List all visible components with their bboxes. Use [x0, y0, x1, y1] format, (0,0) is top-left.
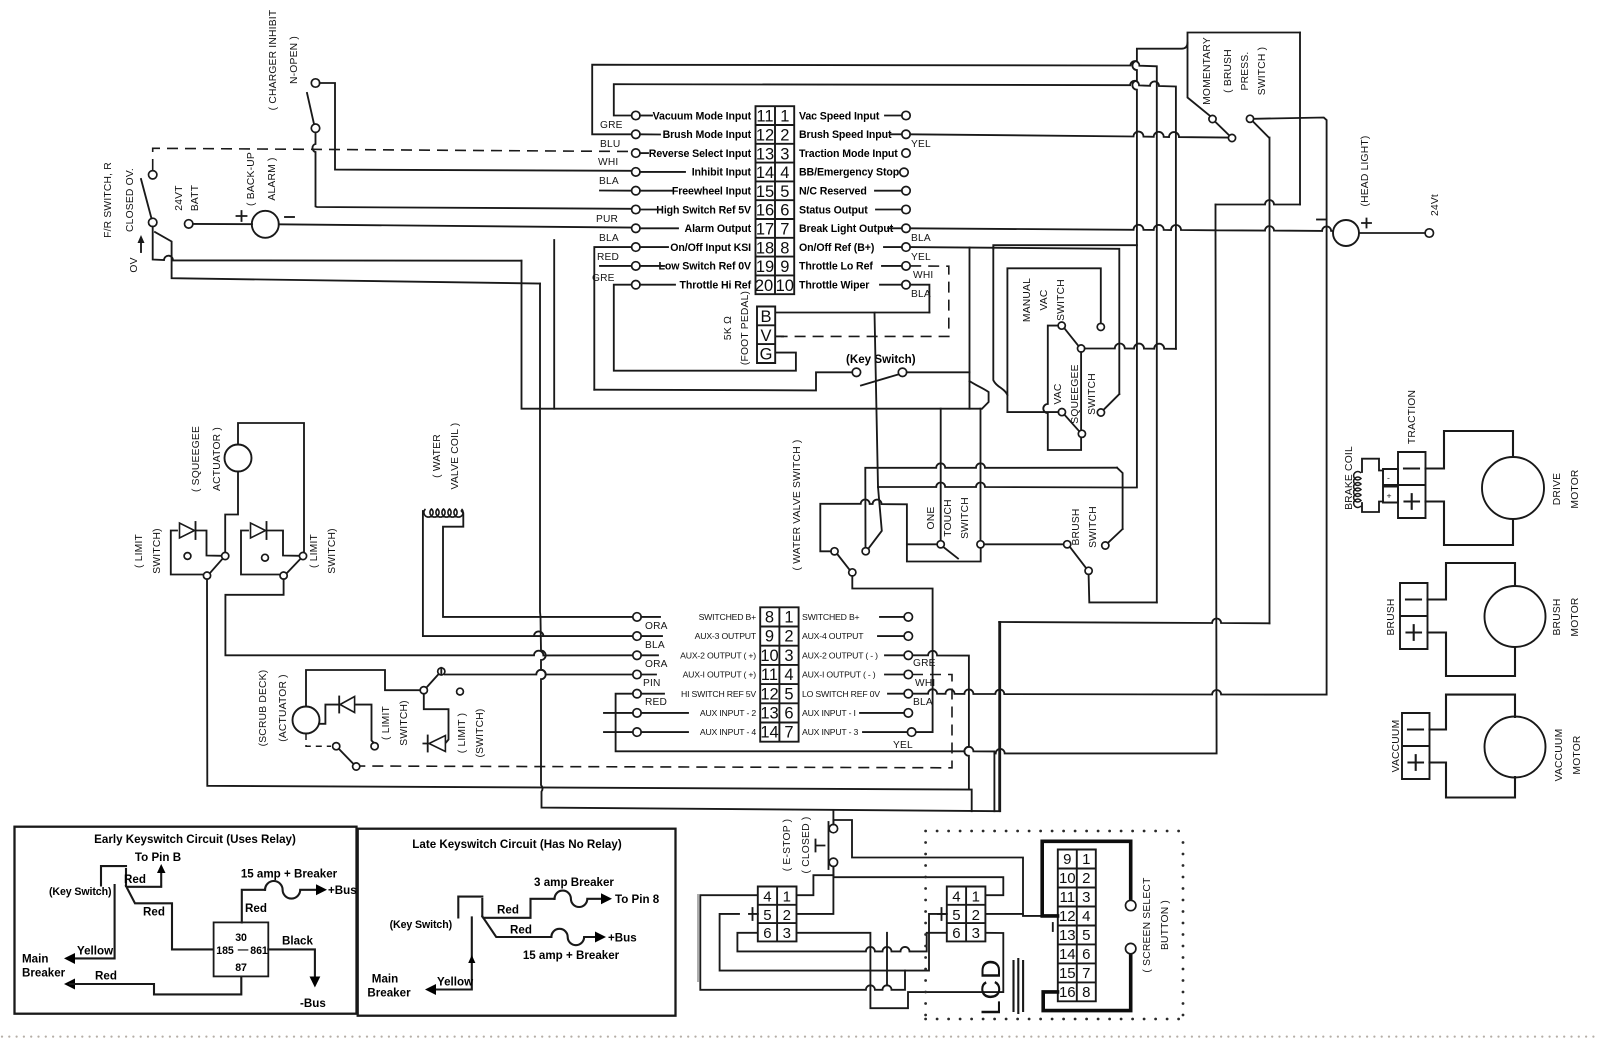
svg-text:9: 9: [780, 258, 789, 276]
wire connA pin4 loop: [700, 895, 946, 990]
key switch symbol box2: [458, 897, 482, 918]
brush motor connector: [1386, 583, 1428, 649]
svg-text:15: 15: [1059, 965, 1076, 982]
break light output bus to head light: [910, 205, 1333, 232]
svg-text:VAC: VAC: [1053, 383, 1064, 404]
24VT BATT label: [174, 184, 201, 211]
svg-text:SWITCH): SWITCH): [152, 528, 163, 573]
svg-text:SWITCH): SWITCH): [327, 528, 338, 573]
blade scrub right limit: [427, 674, 439, 687]
diode D2: [429, 736, 445, 752]
svg-text:3: 3: [784, 647, 793, 665]
net T1: brush mode input to top rail to brush switch NO: [592, 61, 1157, 602]
svg-text:AUX-4 OUTPUT: AUX-4 OUTPUT: [802, 631, 864, 641]
svg-text:BUTTON ): BUTTON ): [1160, 900, 1171, 950]
svg-text:1: 1: [1082, 851, 1090, 868]
svg-text:4: 4: [1082, 908, 1090, 925]
svg-text:18: 18: [756, 239, 774, 257]
red to breaker: [242, 890, 265, 923]
svg-text:4: 4: [763, 889, 771, 906]
svg-text:MOTOR: MOTOR: [1570, 469, 1581, 508]
svg-text:High Switch Ref 5V: High Switch Ref 5V: [656, 204, 751, 216]
wire connA pin2 to estop: [797, 867, 834, 914]
On/Off Ref B+ net: [910, 245, 1137, 394]
late keyswitch circuit box: [358, 829, 676, 1016]
svg-text:B: B: [760, 308, 771, 326]
svg-text:PRESS.: PRESS.: [1240, 52, 1251, 91]
vacuum motor: [1430, 695, 1584, 798]
svg-text:8: 8: [1082, 984, 1090, 1001]
svg-text:VACCUUM: VACCUUM: [1391, 720, 1402, 773]
svg-text:2: 2: [972, 907, 980, 924]
wire brush mover to T2 rail: [1089, 574, 1157, 602]
svg-text:9: 9: [1063, 851, 1071, 868]
svg-text:OV: OV: [129, 257, 140, 272]
svg-text:BLA: BLA: [913, 697, 933, 708]
svg-text:Break Light Output: Break Light Output: [799, 223, 894, 235]
svg-text:2: 2: [784, 628, 793, 646]
svg-text:1: 1: [780, 108, 789, 126]
svg-text:Red: Red: [245, 902, 267, 915]
svg-text:DRIVE: DRIVE: [1552, 473, 1563, 505]
svg-text:AUX INPUT - 4: AUX INPUT - 4: [700, 727, 757, 737]
svg-text:PUR: PUR: [596, 214, 618, 225]
head light: [1317, 135, 1371, 246]
J2 left labels: [680, 612, 757, 737]
svg-text:AUX INPUT - I: AUX INPUT - I: [802, 708, 856, 718]
svg-text:24Vt: 24Vt: [1430, 194, 1441, 216]
svg-text:(ACTUATOR ): (ACTUATOR ): [278, 674, 289, 742]
svg-text:ALARM ): ALARM ): [267, 157, 278, 200]
charger inhibit switch label: [268, 9, 300, 110]
svg-text:SWITCH: SWITCH: [1056, 279, 1067, 321]
svg-text:1: 1: [972, 889, 980, 906]
svg-text:14: 14: [760, 724, 778, 742]
svg-text:Red: Red: [143, 906, 165, 919]
svg-text:—: —: [238, 944, 249, 956]
svg-text:AUX-3 OUTPUT: AUX-3 OUTPUT: [695, 631, 757, 641]
vacuum motor connector: [1391, 713, 1430, 779]
J1 left terminals: [600, 111, 685, 289]
wire scrub right branch diode: [423, 694, 448, 744]
traction brake coil: [1344, 446, 1398, 512]
key switch: [846, 353, 916, 386]
B+ branch down to key switch: [970, 247, 989, 408]
wire connB pin2: [986, 913, 1023, 915]
svg-text:14: 14: [756, 164, 774, 182]
bottom page dotted rule: [1, 1036, 1595, 1038]
wire one touch left stub: [907, 543, 937, 545]
svg-text:Throttle Hi Ref: Throttle Hi Ref: [680, 280, 752, 292]
svg-text:On/Off Input KSI: On/Off Input KSI: [670, 242, 751, 254]
svg-text:-Bus: -Bus: [300, 997, 326, 1010]
limit switch 2 label: [309, 528, 338, 573]
svg-text:Main: Main: [22, 953, 48, 966]
wire one touch to brush switch: [984, 543, 1064, 545]
svg-text:BLA: BLA: [599, 176, 619, 187]
svg-text:(Key Switch): (Key Switch): [49, 886, 111, 898]
scrub junction: [420, 687, 427, 694]
F/R switch label: [103, 162, 136, 238]
net T2: vacuum mode input to top rail down right side: [614, 81, 1176, 349]
momentary brush press switch box: [1188, 33, 1301, 205]
24Vt terminal: [1425, 194, 1441, 237]
J1 right terminals: [875, 111, 910, 289]
foot pedal connector BVG: [757, 307, 775, 364]
svg-text:To Pin 8: To Pin 8: [615, 893, 660, 906]
scrub deck actuator label: [258, 670, 289, 747]
svg-text:VAC: VAC: [1039, 289, 1050, 310]
svg-text:13: 13: [1059, 927, 1076, 944]
svg-text:AUX INPUT - 3: AUX INPUT - 3: [802, 727, 859, 737]
svg-text:BLA: BLA: [645, 640, 665, 651]
svg-text:Throttle Wiper: Throttle Wiper: [799, 280, 869, 292]
svg-text:Main: Main: [372, 973, 398, 986]
svg-text:( E-STOP ): ( E-STOP ): [782, 819, 793, 872]
screen select label: [1142, 877, 1171, 973]
svg-text:AUX-2 OUTPUT ( +): AUX-2 OUTPUT ( +): [680, 650, 756, 660]
svg-text:(Key Switch): (Key Switch): [846, 353, 916, 366]
svg-text:AUX INPUT - 2: AUX INPUT - 2: [700, 708, 757, 718]
svg-text:3: 3: [972, 925, 980, 942]
svg-text:8: 8: [765, 609, 774, 627]
connector J1 block: [755, 106, 794, 295]
wire estop bottom to connB pin1: [833, 867, 1003, 896]
svg-text:YEL: YEL: [911, 139, 931, 150]
wire momentary pole2 down to rail204: [1269, 138, 1271, 624]
limit switch 2: [241, 522, 307, 579]
rail y204: [1216, 200, 1301, 204]
foot pedal label: [723, 291, 751, 365]
svg-text:6: 6: [780, 202, 789, 220]
svg-text:6: 6: [952, 925, 960, 942]
svg-text:1: 1: [783, 889, 791, 906]
svg-text:ACTUATOR ): ACTUATOR ): [212, 427, 223, 491]
svg-text:TOUCH: TOUCH: [943, 499, 954, 536]
svg-text:BLA: BLA: [911, 289, 931, 300]
svg-text:( SCREEN SELECT: ( SCREEN SELECT: [1142, 877, 1153, 973]
back-up alarm label: [246, 152, 278, 206]
svg-text:Breaker: Breaker: [367, 987, 411, 1000]
svg-text:Breaker: Breaker: [22, 967, 66, 980]
svg-text:15 amp + Breaker: 15 amp + Breaker: [241, 868, 338, 881]
svg-text:6: 6: [763, 925, 771, 942]
wire coil right to switched B+ row: [443, 511, 633, 617]
svg-text:(SCRUB DECK): (SCRUB DECK): [258, 670, 269, 747]
svg-text:VALVE COIL ): VALVE COIL ): [450, 423, 461, 490]
svg-text:24VT: 24VT: [174, 185, 185, 211]
J2 right labels: [802, 612, 880, 737]
svg-text:861: 861: [250, 945, 268, 957]
svg-text:MOMENTARY: MOMENTARY: [1202, 37, 1213, 105]
svg-text:Freewheel Input: Freewheel Input: [672, 186, 752, 198]
E-stop pushbutton: [816, 822, 838, 869]
svg-text:N/C Reserved: N/C Reserved: [799, 186, 867, 198]
svg-text:Black: Black: [282, 935, 313, 948]
svg-text:10: 10: [1059, 870, 1076, 887]
wire manual vac left contact down: [1043, 326, 1081, 450]
svg-text:30: 30: [235, 932, 247, 944]
svg-text:15 amp + Breaker: 15 amp + Breaker: [523, 949, 620, 962]
LCD 16-pin connector: [1053, 850, 1096, 1002]
drive motor: [1426, 431, 1582, 545]
svg-text:3 amp Breaker: 3 amp Breaker: [534, 876, 614, 889]
svg-text:Traction Mode Input: Traction Mode Input: [799, 148, 898, 160]
wire aux1+ row from limit: [441, 668, 633, 675]
F/R switch: [141, 171, 157, 227]
red arrow to main breaker: [64, 979, 75, 990]
svg-text:4: 4: [784, 666, 793, 684]
key switch symbol box1: [101, 866, 126, 886]
svg-text:SWITCH: SWITCH: [960, 497, 971, 539]
svg-text:( CHARGER INHIBIT: ( CHARGER INHIBIT: [268, 9, 279, 110]
svg-text:(SWITCH): (SWITCH): [475, 708, 486, 757]
svg-text:5: 5: [763, 907, 771, 924]
svg-text:11: 11: [756, 108, 773, 126]
svg-text:BLA: BLA: [599, 233, 619, 244]
svg-text:ORA: ORA: [645, 621, 668, 632]
svg-text:Status Output: Status Output: [799, 204, 868, 216]
svg-text:7: 7: [780, 221, 789, 239]
svg-text:HI SWITCH REF 5V: HI SWITCH REF 5V: [681, 689, 756, 699]
svg-text:SWITCH): SWITCH): [399, 700, 410, 745]
LCD text: [976, 958, 1023, 1015]
svg-text:WHI: WHI: [913, 270, 933, 281]
squeegee actuator motor: [225, 445, 252, 472]
scrub deck diode D1 branch: [319, 705, 374, 744]
J2 left terminals: [604, 613, 688, 737]
svg-text:17: 17: [756, 221, 774, 239]
arrow to pin B: [160, 870, 162, 885]
svg-text:9: 9: [765, 628, 774, 646]
E-stop label: [782, 817, 812, 874]
long rail y408: [522, 261, 981, 409]
svg-text:GRE: GRE: [592, 273, 615, 284]
svg-text:5: 5: [784, 685, 793, 703]
wire GRE aux2- to bottom bus: [913, 651, 969, 790]
svg-text:( LIMIT: ( LIMIT: [134, 533, 145, 568]
svg-text:( CLOSED ): ( CLOSED ): [801, 817, 812, 874]
svg-text:16: 16: [1059, 984, 1076, 1001]
svg-text:6: 6: [1082, 946, 1090, 963]
svg-text:To Pin B: To Pin B: [135, 851, 181, 864]
svg-text:LCD: LCD: [976, 958, 1006, 1015]
squeegee actuator label: [191, 426, 223, 492]
wire battery to alarm: [193, 223, 252, 225]
svg-text:Yellow: Yellow: [437, 976, 474, 989]
wire head light to 24Vt: [1359, 232, 1425, 234]
svg-text:LO SWITCH REF 0V: LO SWITCH REF 0V: [802, 689, 880, 699]
wire key switch left to KSI net: [594, 372, 852, 390]
charger inhibit switch: [307, 79, 320, 133]
battery terminal: [185, 220, 193, 228]
svg-text:( SQUEEGEE: ( SQUEEGEE: [191, 426, 202, 492]
breaker symbol: [265, 881, 317, 899]
wire squeegee right contact to B+ rail: [1104, 394, 1120, 410]
svg-text:20: 20: [755, 277, 773, 295]
svg-text:Throttle Lo Ref: Throttle Lo Ref: [799, 261, 873, 273]
svg-text:SWITCH: SWITCH: [1087, 373, 1098, 415]
svg-text:BRUSH: BRUSH: [1071, 508, 1082, 545]
wire manual vac hat: [1007, 268, 1100, 395]
limit switch label scrub A: [381, 700, 410, 745]
svg-text:(FOOT PEDAL): (FOOT PEDAL): [740, 291, 751, 365]
svg-text:Vac Speed Input: Vac Speed Input: [799, 110, 880, 122]
svg-text:2: 2: [1082, 870, 1090, 887]
traction connector: [1398, 452, 1426, 518]
wire alarm output: [279, 224, 632, 227]
wire water valve right contact up: [865, 463, 1117, 547]
svg-text:Low Switch Ref 0V: Low Switch Ref 0V: [659, 261, 752, 273]
svg-text:5K Ω: 5K Ω: [723, 316, 734, 340]
svg-text:SWITCH ): SWITCH ): [1257, 47, 1268, 96]
wire RED hi switch ref net: [616, 694, 995, 812]
svg-text:( WATER: ( WATER: [432, 434, 443, 478]
svg-text:8: 8: [780, 239, 789, 257]
svg-text:SWITCH: SWITCH: [1088, 506, 1099, 548]
rail x1000: [999, 622, 1001, 811]
relay box: [214, 922, 269, 976]
OV arrow: [129, 235, 145, 273]
svg-text:Red: Red: [95, 970, 117, 983]
svg-text:7: 7: [1082, 965, 1090, 982]
wire water valve mover down to YEL: [852, 576, 932, 732]
svg-text:WHI: WHI: [598, 157, 618, 168]
svg-text:12: 12: [760, 685, 778, 703]
svg-text:BLA: BLA: [911, 233, 931, 244]
wire throttle wiper BLA down: [910, 285, 929, 313]
svg-text:(Key Switch): (Key Switch): [390, 919, 452, 931]
svg-text:( WATER VALVE SWITCH ): ( WATER VALVE SWITCH ): [792, 439, 803, 570]
connector J2 block: [760, 607, 798, 741]
screen select contacts: [1126, 900, 1136, 910]
svg-text:Inhibit Input: Inhibit Input: [692, 167, 752, 179]
connector J1 right pin labels: [799, 110, 900, 291]
net T0: brush-press wire down to brush switch NO: [1123, 43, 1188, 530]
svg-text:( LIMIT: ( LIMIT: [309, 533, 320, 568]
svg-text:MANUAL: MANUAL: [1022, 278, 1033, 322]
h487 rail: [878, 468, 1123, 488]
wire limit1 bottom long left rail: [207, 579, 972, 811]
svg-text:PIN: PIN: [643, 678, 661, 689]
svg-text:AUX-2 OUTPUT ( - ): AUX-2 OUTPUT ( - ): [802, 650, 878, 660]
wire actuator bottom to limit1: [225, 472, 238, 553]
svg-text:RED: RED: [597, 252, 619, 263]
vertical rail x1215: [994, 230, 1216, 753]
svg-text:5: 5: [1082, 927, 1090, 944]
svg-text:2: 2: [783, 907, 791, 924]
svg-text:10: 10: [760, 647, 778, 665]
yellow arrow box2: [432, 917, 472, 989]
vac squeegee switch: [1053, 364, 1105, 437]
scrub limit 2 NO contact: [457, 688, 464, 695]
wire momentary right contact to far rail: [1254, 118, 1326, 695]
wire water valve left contact loop: [820, 499, 980, 561]
yellow arrow: [70, 885, 115, 958]
svg-text:CLOSED OV.: CLOSED OV.: [125, 168, 136, 232]
screen select button wires: [1042, 841, 1131, 916]
J2 right terminals: [860, 613, 916, 737]
svg-text:Red: Red: [124, 873, 146, 886]
svg-text:BLU: BLU: [600, 139, 620, 150]
svg-text:On/Off Ref (B+): On/Off Ref (B+): [799, 242, 874, 254]
one touch switch: [926, 497, 984, 558]
svg-text:6: 6: [784, 705, 793, 723]
svg-text:13: 13: [760, 705, 778, 723]
svg-text:+Bus: +Bus: [328, 884, 357, 897]
svg-text:12: 12: [1059, 908, 1076, 925]
water valve switch: [831, 548, 869, 576]
svg-text:Red: Red: [510, 924, 532, 937]
svg-text:SWITCHED B+: SWITCHED B+: [802, 612, 860, 622]
wire nest mid vertical: [886, 933, 888, 986]
wire estop top to LCD rail: [833, 820, 1044, 916]
wire F/R to OV buses: [153, 227, 522, 261]
svg-text:SWITCHED B+: SWITCHED B+: [699, 612, 757, 622]
rail from OV bus2 down to switched B+ and bottom: [540, 284, 999, 812]
scrub deck actuator motor: [293, 707, 320, 734]
svg-text:F/R SWITCH, R: F/R SWITCH, R: [103, 162, 114, 238]
wire connA pin6 loop: [737, 933, 946, 952]
svg-text:ONE: ONE: [926, 507, 937, 530]
scrub limit switch NO terminal: [438, 668, 445, 675]
dashed actuator stub: [306, 734, 331, 746]
wire row19 vertical stub: [553, 240, 555, 409]
wire squeegee left contact feed: [1007, 411, 1058, 413]
limit switch 1 label: [134, 528, 163, 573]
wire connA pin3 loop: [797, 933, 1004, 1008]
svg-text:5: 5: [952, 907, 960, 924]
dashed aux1- net: [357, 675, 952, 768]
harness connector B: [938, 887, 985, 943]
J2 right color labels: [893, 658, 936, 751]
svg-text:1: 1: [784, 609, 793, 627]
svg-text:Alarm Output: Alarm Output: [685, 223, 752, 235]
svg-text:BATT: BATT: [190, 184, 201, 211]
branch to one touch contacts: [940, 409, 942, 540]
svg-text:4: 4: [952, 889, 960, 906]
svg-text:12: 12: [756, 127, 774, 145]
wire charger top contact to inhibit row: [320, 83, 632, 171]
svg-text:YEL: YEL: [911, 252, 931, 263]
wire connA pin5 left loop: [720, 914, 905, 971]
J1 wire color labels left: [592, 120, 623, 284]
svg-text:MOTOR: MOTOR: [1570, 597, 1581, 636]
svg-text:7: 7: [784, 724, 793, 742]
wire brush right contact diag: [1108, 529, 1123, 543]
svg-text:GRE: GRE: [913, 658, 936, 669]
svg-text:Late Keyswitch Circuit (Has N: Late Keyswitch Circuit (Has No Relay): [412, 838, 622, 851]
black wire to -bus: [268, 949, 315, 980]
svg-text:V: V: [760, 327, 771, 345]
svg-text:ORA: ORA: [645, 659, 668, 670]
svg-text:5: 5: [780, 183, 789, 201]
LCD dotted box: [924, 830, 1184, 1021]
harness connector A: [749, 887, 797, 943]
svg-text:+: +: [1387, 491, 1392, 501]
J1 wire color labels right: [911, 139, 933, 300]
svg-text:YEL: YEL: [893, 740, 913, 751]
svg-text:185: 185: [216, 945, 234, 957]
manual vac switch: [1022, 278, 1104, 352]
svg-text:BRUSH: BRUSH: [1386, 598, 1397, 635]
wire connA pin1 up: [797, 875, 834, 895]
svg-text:-: -: [1387, 473, 1390, 483]
svg-text:AUX-I OUTPUT ( +): AUX-I OUTPUT ( +): [683, 670, 757, 680]
dashed reverse-select net: [153, 148, 632, 170]
dashed throttle-lo to pedal V: [781, 266, 949, 337]
svg-text:G: G: [760, 346, 773, 364]
